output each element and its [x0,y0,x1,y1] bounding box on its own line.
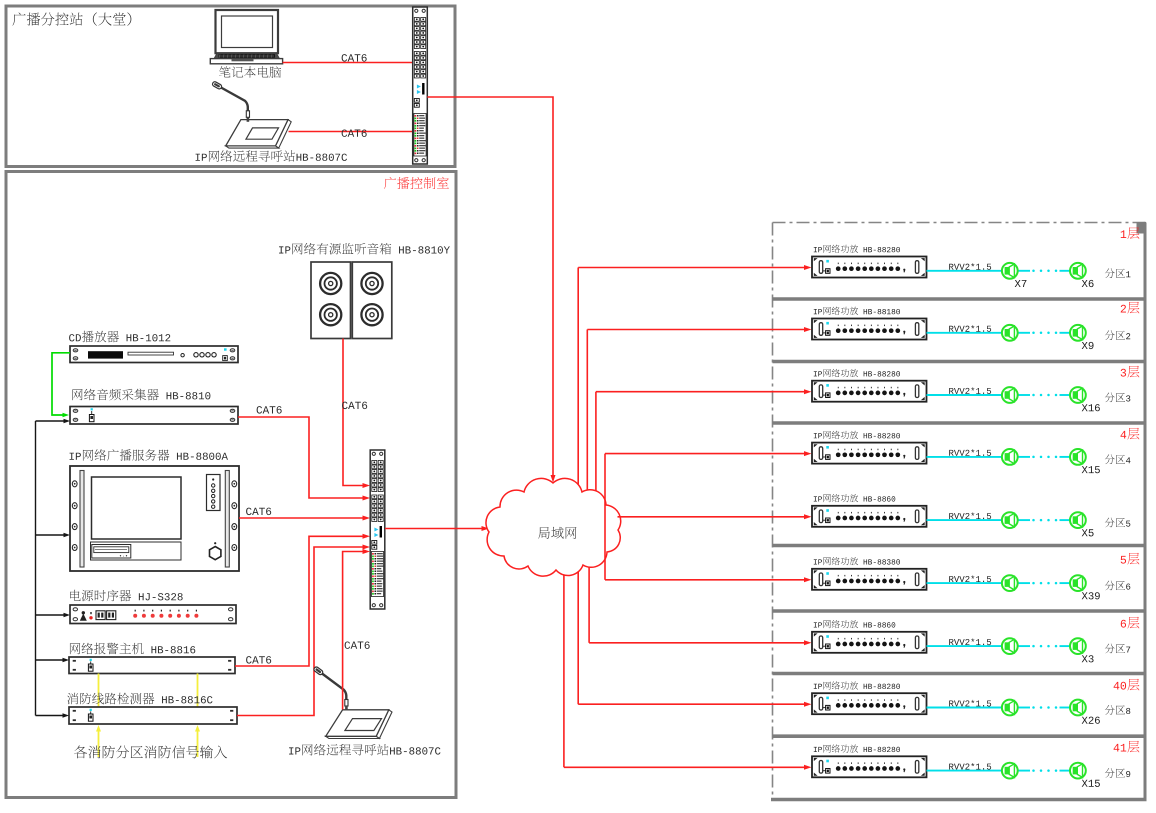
floor separator 2 [773,360,1147,364]
speaker B zone9 [1070,763,1086,779]
label IP网络功放 HB-88280 (zone3) [814,369,900,377]
speaker A zone8 [1002,700,1018,716]
label IP网络功放 HB-88280 (zone4) [814,431,900,439]
fire wires alarm to detector (yellow) [99,674,198,708]
amplifier HB-88280 zone3 [812,381,927,402]
wire LAN to amplifier zone1 [578,265,811,270]
label RVV2*1.5 zone5 [949,512,991,519]
network audio collector HB-8810 [70,407,238,425]
wire CAT6 laptop to switch [283,62,413,64]
label 消防线路检测器 HB-8816C [67,693,212,705]
label IP网络功放 HB-88180 (zone2) [814,307,900,315]
wire LAN to floor40 (vertical) [577,555,579,704]
label 广播分控站（大堂） [12,12,131,25]
label 1层 [1121,227,1140,239]
speaker B zone2 [1070,325,1086,341]
amplifier HB-88180 zone2 [812,319,927,340]
floor box right border [1137,222,1147,799]
speaker A zone5 [1002,512,1018,528]
label CAT6 (speakers) [342,402,367,409]
floor separator 1 [773,297,1147,301]
network switch (hall) [413,7,428,164]
wire CD to collector (green) [52,353,70,417]
laptop 笔记本电脑 [210,10,282,64]
monitor speakers HB-8810Y [311,262,392,339]
wire LAN to floor41 (vertical) [563,555,565,767]
speaker A zone2 [1002,325,1018,341]
wire LAN to amplifier zone4 [605,451,812,456]
speaker B zone4 [1070,449,1086,465]
speaker wire RVV2*1.5 zone7 [927,645,1071,648]
label X6 zone1 [1082,280,1094,287]
label 分区4 [1105,454,1131,464]
amplifier HB-88380 zone6 [812,569,927,590]
label 电源时序器 HJ-S328 [70,590,182,602]
wire CAT6 alarm to switch2 [235,534,370,666]
paging mic IP网络远程寻呼站HB-8807C (control room) [313,666,392,738]
speaker wire RVV2*1.5 zone5 [927,519,1071,522]
speaker B zone6 [1070,575,1086,591]
speaker A zone1 [1002,263,1018,279]
label X39 zone6 [1082,592,1100,599]
network alarm host HB-8816 [69,657,235,674]
amplifier HB-88280 zone4 [812,443,927,464]
label X7 zone1 [1015,280,1027,287]
wire CAT6 mic2 to switch2 [343,549,370,710]
amplifier HB-88280 zone9 [812,756,927,777]
label 分区3 [1105,393,1130,403]
label IP网络广播服务器 HB-8800A [70,449,228,461]
floor box bottom border [771,798,1147,801]
speaker B zone7 [1070,638,1086,654]
wire LAN to floor2 (vertical) [586,330,588,496]
label CAT6 (alarm) [246,656,271,663]
label IP网络功放 HB-88280 (zone1) [814,245,900,253]
box 广播分控站(大堂) [6,6,455,167]
wire CAT6 speakers to switch2 [343,339,370,489]
amplifier HB-8860 zone7 [812,632,927,653]
wire LAN to amplifier zone7 [589,640,811,645]
wire LAN riser (floors 4-5) [604,454,606,580]
speaker wire RVV2*1.5 zone8 [927,706,1071,709]
speaker A zone7 [1002,638,1018,654]
label IP网络功放 HB-88280 (zone8) [814,681,900,689]
wire LAN to floor6 (vertical) [588,555,590,643]
wire LAN to amplifier zone3 [596,389,812,394]
wire LAN to amplifier zone9 [564,765,812,770]
IP broadcast server HB-8800A [70,466,239,571]
label 局域网 [538,527,576,539]
label 5层 [1121,553,1140,565]
fire line detector HB-8816C [69,707,237,724]
label 40层 [1114,679,1140,691]
speaker wire RVV2*1.5 zone2 [927,332,1071,335]
label 分区5 [1105,518,1130,528]
floor box left border (dash-dot) [772,223,774,799]
floor separator 5 [773,609,1147,613]
wire CAT6 server to switch2 [239,516,370,521]
wire switch2 to LAN [385,526,489,531]
wire CAT6 collector to switch2 [238,417,370,501]
speaker B zone8 [1070,700,1086,716]
paging mic IP网络远程寻呼站HB-8807C (hall) [212,81,291,148]
label X5 zone5 [1082,529,1094,536]
label 各消防分区消防信号输入 [74,745,227,758]
label 分区6 [1105,581,1130,591]
label CAT6 (mic hall) [342,129,367,136]
speaker wire RVV2*1.5 zone9 [927,769,1071,772]
speaker A zone9 [1002,763,1018,779]
label IP网络功放 HB-8860 (zone5) [814,494,896,502]
speaker wire RVV2*1.5 zone1 [927,270,1071,273]
label 分区8 [1105,705,1130,715]
label X15 zone9 [1082,780,1100,787]
fire signal input wires (yellow) [96,725,200,757]
speaker wire RVV2*1.5 zone4 [927,456,1071,459]
network switch (control room) [370,450,385,609]
amplifier HB-8860 zone5 [812,506,927,527]
floor separator 7 [773,734,1147,738]
box 广播控制室 [6,172,456,798]
label IP网络功放 HB-88380 (zone6) [814,557,900,565]
control bus (black) [36,419,71,718]
label 分区7 [1105,644,1130,654]
label 分区2 [1105,330,1130,340]
speaker wire RVV2*1.5 zone6 [927,582,1071,585]
wire LAN to floor3 (vertical) [595,392,597,495]
label 6层 [1121,617,1140,629]
speaker wire RVV2*1.5 zone3 [927,394,1071,397]
label 网络报警主机 HB-8816 [70,643,195,654]
label 41层 [1114,741,1140,753]
label 网络音频采集器 HB-8810 [72,389,210,401]
label 广播控制室 [384,177,449,189]
amplifier HB-88280 zone1 [812,257,927,278]
floor box top border (dash-dot) [773,222,1147,224]
label 4层 [1120,428,1139,440]
wire LAN to amplifier zone2 [587,327,811,332]
label RVV2*1.5 zone8 [949,700,991,707]
label CAT6 (laptop) [342,54,367,61]
speaker A zone6 [1002,575,1018,591]
label 分区9 [1105,768,1130,778]
label 3层 [1121,366,1140,378]
label X16 zone3 [1082,404,1100,411]
label IP网络功放 HB-88280 (zone9) [814,744,900,752]
svg-text:•·•: •·• [119,554,128,560]
speaker A zone3 [1002,387,1018,403]
label RVV2*1.5 zone6 [949,575,991,582]
floor separator 3 [773,421,1147,425]
wire switch1 to LAN [427,97,555,483]
label RVV2*1.5 zone7 [949,638,991,645]
wire LAN to amplifier zone6 [605,577,812,582]
power sequencer HJ-S328 [70,605,236,624]
LAN cloud 局域网 [486,478,621,576]
label RVV2*1.5 zone3 [949,387,991,394]
label 分区1 [1105,268,1131,278]
wire LAN to floor1 (vertical) [577,268,579,496]
label RVV2*1.5 zone4 [949,449,991,456]
floor separator 4 [773,544,1147,548]
label CAT6 (server) [246,508,271,515]
label X26 zone8 [1082,717,1100,724]
label IP网络远程寻呼站HB-8807C (hall) [196,150,347,161]
label IP网络远程寻呼站HB-8807C (control room) [289,744,440,755]
label 2层 [1121,302,1140,314]
label IP网络有源监听音箱 HB-8810Y [279,243,450,254]
label X3 zone7 [1082,655,1094,662]
wire detector to switch2 [237,545,370,716]
wire LAN to amplifier zone5 [618,514,812,519]
label CD播放器 HB-1012 [69,331,170,343]
floor separator 6 [773,672,1147,676]
label RVV2*1.5 zone1 [949,263,991,270]
speaker A zone4 [1002,449,1018,465]
label RVV2*1.5 zone2 [949,325,991,332]
label X15 zone4 [1082,466,1100,473]
wire CAT6 mic to switch [289,131,413,133]
speaker B zone3 [1070,387,1086,403]
label 笔记本电脑 [219,66,281,77]
CD player HB-1012 [70,346,238,363]
label RVV2*1.5 zone9 [949,763,991,770]
label CAT6 (collector) [257,406,282,413]
label X9 zone2 [1082,342,1094,349]
amplifier HB-88280 zone8 [812,693,927,714]
speaker B zone5 [1070,512,1086,528]
label IP网络功放 HB-8860 (zone7) [814,620,896,628]
wire LAN to amplifier zone8 [578,702,811,707]
speaker B zone1 [1070,263,1086,279]
label CAT6 (mic2) [345,641,370,648]
